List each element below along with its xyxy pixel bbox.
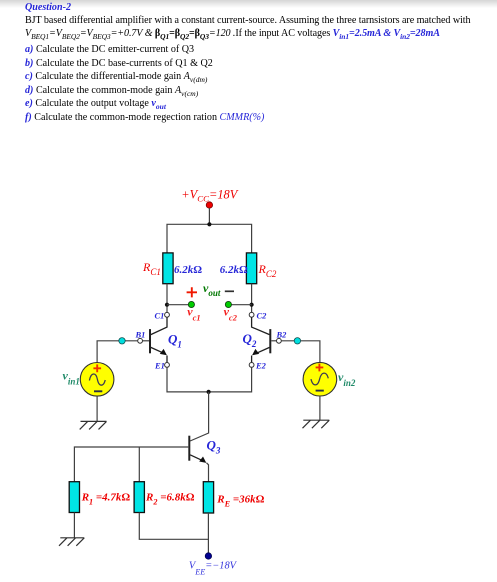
- svg-text:B2: B2: [276, 329, 288, 339]
- wire R1 to ground: [73, 513, 75, 538]
- svg-text:C2: C2: [257, 311, 268, 321]
- label Q3: [207, 438, 221, 456]
- value 6.2k ohm right: [220, 264, 248, 276]
- wire RC2 to C2: [251, 284, 253, 313]
- net dot cyan left: [119, 338, 125, 344]
- node vc1 green dot: [188, 301, 194, 307]
- svg-text:6.2kΩ: 6.2kΩ: [174, 264, 202, 276]
- plus sign of vout: [187, 287, 197, 297]
- resistor R1: [69, 482, 79, 513]
- svg-text:6.2kΩ: 6.2kΩ: [220, 264, 248, 276]
- junction dot vc2: [250, 303, 254, 307]
- svg-text:+VCC=18V: +VCC=18V: [181, 188, 238, 204]
- label R2 value: [145, 492, 195, 507]
- svg-text:E1: E1: [154, 361, 165, 371]
- label E2: [255, 361, 267, 371]
- pin C2 open circle: [249, 312, 254, 317]
- ground under R1: [59, 538, 84, 546]
- Vcc node dot: [206, 202, 212, 208]
- wire vin2 to ground: [319, 396, 321, 420]
- label VEE=-18V: [189, 560, 238, 576]
- label vc1: [187, 305, 200, 323]
- svg-text:vout: vout: [203, 281, 221, 298]
- label B2: [276, 329, 288, 339]
- svg-text:B1: B1: [135, 329, 146, 339]
- svg-text:vc2: vc2: [224, 305, 238, 323]
- wire B1 circle to base bar: [143, 340, 150, 342]
- pin B1 open circle: [138, 338, 143, 343]
- svg-text:Q2: Q2: [243, 331, 257, 349]
- header text: [25, 2, 71, 13]
- stub wire to vc2 probe: [228, 304, 251, 306]
- source vin2: [303, 362, 337, 396]
- resistor R2: [134, 482, 144, 513]
- wire emitter node to Q3 collector: [190, 392, 209, 441]
- pin E2 open circle: [249, 363, 254, 368]
- wire R2 bottom to VEE node: [139, 513, 208, 540]
- resistor RC1: [163, 253, 173, 284]
- svg-text:C1: C1: [155, 311, 165, 321]
- svg-text:E2: E2: [255, 361, 267, 371]
- junction dot vc1: [165, 303, 169, 307]
- label vout: [203, 281, 221, 298]
- source vin1: [80, 363, 114, 397]
- svg-text:R1 =4.7kΩ: R1 =4.7kΩ: [81, 492, 131, 507]
- svg-text:Q3: Q3: [207, 438, 221, 456]
- wire R2 top: [138, 447, 140, 482]
- junction dot emitter node: [207, 390, 211, 394]
- resistor RC2: [246, 253, 256, 284]
- ground under vin2: [303, 420, 330, 428]
- transistor Q3: [189, 436, 208, 482]
- node vc2 green dot: [225, 301, 231, 307]
- svg-text:RC1: RC1: [142, 260, 161, 277]
- value 6.2k ohm left: [174, 264, 202, 276]
- label C1: [155, 311, 165, 321]
- pin E1 open circle: [165, 363, 170, 368]
- svg-text:R2 =6.8kΩ: R2 =6.8kΩ: [145, 492, 195, 507]
- svg-text:vin1: vin1: [63, 369, 80, 387]
- label E1: [154, 361, 165, 371]
- junction dot on rail: [207, 222, 211, 226]
- top rail wire: [167, 224, 252, 253]
- resistor RE: [203, 482, 213, 513]
- label vin1: [63, 369, 80, 387]
- label B1: [135, 329, 146, 339]
- label R1 value: [81, 492, 131, 507]
- pin C1 open circle: [165, 312, 170, 317]
- net dot cyan right: [294, 338, 300, 344]
- VEE node dot: [205, 553, 211, 559]
- minus sign of vout: [225, 290, 234, 292]
- wire vin1 to ground: [96, 396, 98, 421]
- wire RE to VEE: [207, 513, 209, 553]
- label RC2: [258, 262, 277, 279]
- emitter common wire: [167, 367, 252, 392]
- wire RC1 to C1: [166, 284, 168, 313]
- label RE value: [216, 494, 264, 509]
- transistor Q1: [150, 317, 167, 362]
- stub wire to vc1 probe: [167, 304, 191, 306]
- base wire to Q3: [74, 447, 188, 482]
- transistor Q2: [252, 317, 271, 362]
- wire Vcc dot to rail: [208, 208, 210, 224]
- svg-text:RE =36kΩ: RE =36kΩ: [216, 494, 264, 509]
- label Q2: [243, 331, 257, 349]
- svg-text:RC2: RC2: [258, 262, 277, 279]
- label vin2: [338, 370, 356, 388]
- svg-text:Q1: Q1: [168, 332, 182, 350]
- wire B2 circle to base bar: [271, 340, 276, 342]
- label C2: [257, 311, 268, 321]
- ground under vin1: [80, 421, 107, 429]
- pin B2 open circle: [277, 338, 282, 343]
- label Q1: [168, 332, 182, 350]
- svg-text:vin2: vin2: [338, 370, 356, 388]
- svg-text:VEE=−18V: VEE=−18V: [189, 560, 238, 576]
- wire vin1 to B1: [97, 341, 138, 363]
- label RC1: [142, 260, 161, 277]
- wire vin2 to B2: [281, 341, 320, 363]
- svg-text:vc1: vc1: [187, 305, 200, 323]
- label vc2: [224, 305, 238, 323]
- +Vcc=18V label: [181, 188, 238, 204]
